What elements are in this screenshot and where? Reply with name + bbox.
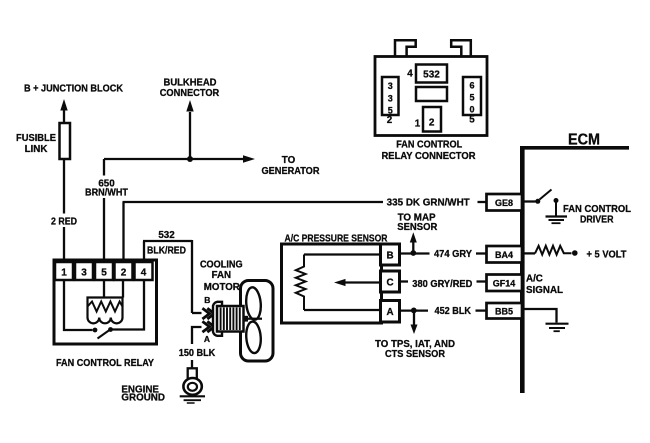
connector chevrons at motor A bbox=[202, 321, 214, 332]
connector cavity 335 bbox=[382, 77, 399, 115]
wire 380 GRY/RED bbox=[400, 280, 487, 282]
svg-text:6: 6 bbox=[469, 81, 474, 91]
wire 532 BLK/RED from relay pin 4 to motor B bbox=[143, 240, 202, 313]
relay connector right mounting tab bbox=[451, 40, 471, 58]
engine ground symbol bbox=[180, 368, 205, 403]
arrow to B+ junction block bbox=[60, 99, 67, 123]
relay connector left mounting tab bbox=[395, 40, 416, 58]
ground wire from BB5 bbox=[525, 309, 557, 323]
svg-text:BLK/RED: BLK/RED bbox=[147, 246, 186, 257]
wire 452 BLK bbox=[400, 309, 487, 311]
svg-text:452 BLK: 452 BLK bbox=[435, 306, 472, 317]
svg-text:GF14: GF14 bbox=[493, 278, 516, 288]
svg-text:4: 4 bbox=[407, 69, 413, 80]
connector middle blank cavity bbox=[416, 87, 447, 101]
motor shaft bbox=[247, 318, 262, 320]
svg-text:FAN CONTROL RELAY: FAN CONTROL RELAY bbox=[56, 358, 154, 369]
label ENGINE GROUND bbox=[121, 384, 165, 403]
ECM terminal GE8 bbox=[487, 194, 523, 211]
A/C pressure sensor box bbox=[282, 244, 382, 323]
ECM terminal BA4 bbox=[487, 246, 523, 263]
wire relay pin5 stub to coil bbox=[103, 280, 105, 298]
wire 335 DK GRN/WHT from relay pin 2 to GE8 bbox=[123, 202, 487, 262]
arrow to bulkhead connector bbox=[186, 100, 193, 159]
ECM terminal BB5 bbox=[487, 303, 523, 319]
arrow to TPS IAT CTS bbox=[411, 311, 418, 334]
sensor terminal B bbox=[381, 244, 400, 265]
ground for BB5 bbox=[546, 324, 569, 332]
svg-text:3: 3 bbox=[388, 81, 393, 91]
svg-text:2: 2 bbox=[121, 268, 127, 279]
fan shroud bbox=[241, 281, 274, 362]
node junction on 474 wire bbox=[410, 250, 416, 256]
svg-text:2: 2 bbox=[429, 118, 435, 129]
ECM boundary vertical line bbox=[520, 147, 525, 393]
label COOLING FAN MOTOR bbox=[200, 260, 243, 293]
wire 2 RED vertical from fusible link to relay pin 1 bbox=[63, 159, 65, 262]
wire relay pin4 to switch contact bbox=[112, 280, 144, 330]
svg-text:474 GRY: 474 GRY bbox=[434, 249, 472, 260]
relay pin 5 bbox=[95, 262, 113, 280]
relay pin 3 bbox=[75, 262, 93, 280]
svg-text:GROUND: GROUND bbox=[121, 393, 165, 404]
svg-text:DRIVER: DRIVER bbox=[580, 215, 614, 226]
svg-text:B: B bbox=[386, 251, 393, 262]
svg-text:5: 5 bbox=[101, 268, 107, 279]
svg-text:LINK: LINK bbox=[25, 144, 48, 155]
svg-text:FAN CONTROL: FAN CONTROL bbox=[563, 204, 631, 215]
wire relay pin1 to switch contact bbox=[64, 280, 93, 330]
svg-text:5: 5 bbox=[388, 105, 393, 115]
fusible link F1 bbox=[60, 123, 71, 159]
connector cavity 2 bbox=[423, 107, 441, 132]
svg-text:2 RED: 2 RED bbox=[51, 217, 77, 228]
svg-text:A: A bbox=[204, 334, 210, 344]
svg-text:C: C bbox=[386, 278, 393, 289]
relay switch contact right bbox=[108, 327, 113, 332]
label TO GENERATOR bbox=[262, 155, 320, 177]
svg-text:FAN: FAN bbox=[212, 270, 232, 281]
connector cavity 650 bbox=[463, 77, 481, 115]
svg-text:ECM: ECM bbox=[568, 132, 600, 149]
svg-text:532: 532 bbox=[423, 70, 440, 81]
svg-text:+ 5 VOLT: + 5 VOLT bbox=[587, 249, 627, 260]
sensor wiper arrow bbox=[334, 279, 381, 286]
svg-text:FAN CONTROL: FAN CONTROL bbox=[396, 140, 462, 151]
label 532 BLK/RED bbox=[147, 230, 186, 257]
sensor internal bottom wire bbox=[304, 309, 381, 311]
svg-text:3: 3 bbox=[81, 268, 87, 279]
fan blade bottom bbox=[245, 321, 262, 354]
relay coil resistor zigzag bbox=[88, 302, 123, 312]
svg-text:5: 5 bbox=[469, 115, 475, 126]
svg-text:TO: TO bbox=[282, 155, 296, 166]
svg-text:CONNECTOR: CONNECTOR bbox=[160, 88, 220, 99]
svg-text:5: 5 bbox=[469, 93, 474, 103]
relay coil box with scallops bbox=[88, 298, 123, 324]
node junction on 452 wire bbox=[411, 308, 417, 314]
wire 650 BRN/WHT vertical to relay pin 5 bbox=[103, 159, 105, 262]
label TO MAP SENSOR bbox=[397, 213, 437, 233]
wire 474 GRY bbox=[400, 252, 487, 254]
svg-text:B: B bbox=[204, 295, 210, 305]
wire to generator horizontal bbox=[104, 155, 255, 162]
motor end cap bbox=[213, 302, 222, 336]
sensor terminal A bbox=[381, 301, 400, 323]
svg-text:BB5: BB5 bbox=[495, 306, 513, 316]
relay pin 1 bbox=[55, 262, 73, 280]
label A/C SIGNAL bbox=[526, 273, 563, 296]
svg-text:1: 1 bbox=[415, 119, 421, 130]
svg-text:CTS SENSOR: CTS SENSOR bbox=[385, 349, 445, 360]
sensor terminal C bbox=[381, 271, 400, 292]
connector chevrons at motor B bbox=[202, 308, 214, 319]
fan blade top bbox=[245, 287, 262, 321]
svg-text:RELAY CONNECTOR: RELAY CONNECTOR bbox=[382, 151, 476, 162]
svg-text:MOTOR: MOTOR bbox=[204, 282, 240, 293]
wire motor A to engine ground bbox=[192, 327, 202, 369]
relay pin 2 bbox=[115, 262, 133, 280]
svg-text:3: 3 bbox=[388, 93, 393, 103]
sensor internal top wire bbox=[304, 253, 381, 255]
svg-text:A: A bbox=[386, 307, 393, 318]
label FUSIBLE LINK bbox=[16, 133, 56, 155]
sensor internal resistor zigzag bbox=[296, 255, 306, 311]
ECM boundary top horizontal line bbox=[520, 146, 629, 150]
relay connector outer box bbox=[375, 57, 487, 136]
svg-text:BA4: BA4 bbox=[495, 250, 513, 260]
node junction at bulkhead drop bbox=[187, 156, 193, 162]
relay K1 outer box bbox=[54, 260, 157, 344]
label FAN CONTROL DRIVER bbox=[563, 204, 631, 226]
relay switch contact left bbox=[93, 328, 98, 333]
wire relay pin2 stub to coil bbox=[122, 280, 124, 298]
svg-text:FUSIBLE: FUSIBLE bbox=[16, 133, 56, 144]
arrow to MAP sensor bbox=[410, 232, 417, 251]
svg-text:0: 0 bbox=[469, 105, 474, 115]
label TO TPS IAT AND CTS SENSOR bbox=[375, 339, 455, 360]
svg-text:4: 4 bbox=[141, 268, 147, 279]
ground for fan control driver bbox=[546, 217, 568, 224]
fan control driver switch bbox=[525, 190, 559, 216]
connector cavity 532 bbox=[416, 65, 447, 83]
motor shaft hub bbox=[243, 316, 248, 322]
svg-text:B + JUNCTION BLOCK: B + JUNCTION BLOCK bbox=[24, 84, 123, 95]
label 650 BRN/WHT bbox=[85, 179, 128, 199]
label BULKHEAD CONNECTOR bbox=[160, 78, 220, 99]
relay pin 4 bbox=[135, 262, 153, 280]
svg-text:GENERATOR: GENERATOR bbox=[262, 166, 320, 177]
svg-text:A/C: A/C bbox=[526, 273, 543, 284]
svg-text:SENSOR: SENSOR bbox=[397, 222, 437, 233]
svg-text:150 BLK: 150 BLK bbox=[179, 348, 216, 359]
svg-text:2: 2 bbox=[387, 115, 393, 126]
label FAN CONTROL RELAY CONNECTOR bbox=[382, 140, 476, 163]
motor body cylinder bbox=[217, 306, 244, 332]
svg-text:SIGNAL: SIGNAL bbox=[526, 285, 563, 296]
svg-text:532: 532 bbox=[158, 230, 175, 241]
svg-text:380 GRY/RED: 380 GRY/RED bbox=[412, 279, 472, 290]
svg-text:GE8: GE8 bbox=[495, 198, 513, 208]
svg-text:335 DK GRN/WHT: 335 DK GRN/WHT bbox=[387, 198, 470, 209]
ECM terminal GF14 bbox=[487, 275, 523, 292]
svg-text:COOLING: COOLING bbox=[200, 260, 243, 271]
svg-text:1: 1 bbox=[61, 268, 67, 279]
svg-text:BRN/WHT: BRN/WHT bbox=[85, 188, 128, 199]
relay switch blade bbox=[98, 330, 110, 339]
resistor to +5V bbox=[525, 246, 578, 256]
